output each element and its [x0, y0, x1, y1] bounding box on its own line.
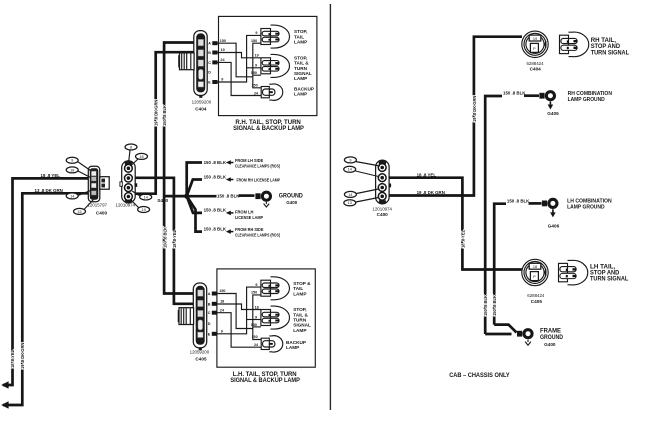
- svg-text:150: 150: [251, 39, 257, 43]
- oval terminal label 9: [66, 157, 78, 163]
- svg-text:14: 14: [144, 195, 148, 199]
- branch wire to ground G400: [187, 195, 217, 198]
- svg-text:9: 9: [255, 31, 257, 35]
- wire 18 .8 YEL left harness: [3, 178, 89, 385]
- svg-text:150 .8 BLK: 150 .8 BLK: [492, 295, 497, 316]
- svg-text:P: P: [533, 47, 536, 51]
- wire 9 tap to stop tail turn bulb: [247, 319, 261, 321]
- svg-text:GROUND: GROUND: [279, 192, 304, 199]
- branch wire to LH side clearance lamps: [187, 163, 202, 196]
- svg-text:SIGNAL & BACKUP LAMP: SIGNAL & BACKUP LAMP: [233, 125, 304, 132]
- arrow RH side clearance: [226, 229, 234, 234]
- pin 3 of 12010974: [124, 184, 132, 192]
- pin 3: [378, 184, 386, 192]
- wire 18 YEL from pin2 down to LH lamp: [389, 178, 522, 270]
- svg-text:D: D: [208, 322, 211, 326]
- wire 150 BLK LH combination lamp ground: [494, 204, 506, 325]
- svg-text:C404: C404: [195, 107, 207, 112]
- svg-text:G400: G400: [286, 200, 298, 205]
- svg-text:6288424: 6288424: [527, 293, 545, 298]
- svg-text:9: 9: [255, 283, 257, 287]
- svg-text:12010974: 12010974: [116, 202, 136, 207]
- connector C400 left half 12015797: [88, 166, 109, 201]
- pin 4 of 12010974: [124, 193, 132, 201]
- svg-text:12010974: 12010974: [372, 206, 392, 211]
- wire 9 pin E to bulbs: [217, 287, 261, 334]
- wire 19 DK GRN from pin4 up to C404: [135, 52, 199, 194]
- pin 1 of 12010974: [124, 164, 132, 172]
- svg-text:13: 13: [348, 201, 352, 205]
- svg-text:C: C: [208, 311, 211, 315]
- ground arrow G405: [548, 102, 554, 110]
- wire 150 BLK RH combination lamp ground: [485, 96, 502, 334]
- svg-text:150: 150: [251, 323, 257, 327]
- svg-text:G405: G405: [547, 111, 559, 116]
- oval terminal label 9: [344, 157, 356, 163]
- oval terminal label 18: [66, 167, 78, 173]
- svg-text:9: 9: [221, 330, 223, 334]
- bulb stop tail lamp (RH): [261, 25, 290, 48]
- svg-text:8: 8: [130, 145, 132, 149]
- wire 150 BLK trunk: C404 pin A down through splice to C405: [164, 43, 203, 294]
- RH lamp assembly box: [219, 16, 317, 115]
- pin 2: [378, 174, 386, 182]
- svg-text:FROM LH SIDE: FROM LH SIDE: [235, 158, 263, 163]
- connector C405 wire boot: [178, 308, 194, 325]
- arrow 18 YEL to front harness: [1, 381, 8, 388]
- oval terminal label 14: [66, 193, 78, 199]
- svg-text:C405: C405: [531, 299, 543, 304]
- branch wire to LH license lamp: [187, 196, 202, 213]
- wire 18 YEL from pin2 to LH lamp drop: [135, 178, 203, 304]
- bulb stop tail turn signal lamp (RH): [261, 54, 290, 77]
- svg-text:FROM RH LICENSE LAMP: FROM RH LICENSE LAMP: [237, 178, 281, 183]
- oval terminal label 14: [344, 191, 356, 197]
- svg-text:12059200: 12059200: [190, 350, 210, 355]
- pin C terminal square: [212, 311, 217, 315]
- pin E terminal square: [212, 80, 217, 84]
- svg-text:B: B: [208, 302, 211, 306]
- arrow LH license: [226, 211, 234, 216]
- bulb backup lamp (LH): [261, 336, 283, 352]
- wire 24 pin C to backup bulb: [218, 62, 262, 95]
- svg-text:19 .8 DK GRN: 19 .8 DK GRN: [154, 100, 159, 126]
- wire 19 .8 DK GRN left harness: [3, 193, 89, 405]
- svg-text:150: 150: [251, 71, 257, 75]
- oval terminal label 8: [125, 144, 137, 150]
- svg-text:9: 9: [349, 158, 351, 162]
- svg-text:19: 19: [141, 208, 145, 212]
- svg-text:150: 150: [251, 291, 257, 295]
- LH lamp assembly box: [217, 269, 315, 367]
- pin 4: [378, 192, 386, 200]
- svg-text:150 .8 BLK: 150 .8 BLK: [507, 198, 530, 203]
- svg-text:FROM RH SIDE: FROM RH SIDE: [235, 227, 264, 232]
- svg-text:LAMP: LAMP: [294, 76, 307, 81]
- pin A terminal square: [212, 292, 217, 296]
- oval terminal label 15: [74, 208, 86, 214]
- svg-text:CLEARANCE LAMPS (ROS): CLEARANCE LAMPS (ROS): [235, 233, 280, 238]
- svg-text:9: 9: [255, 64, 257, 68]
- svg-text:18 .8 YEL: 18 .8 YEL: [417, 172, 437, 177]
- pin 1: [378, 164, 386, 172]
- bulb backup lamp (RH): [261, 84, 283, 100]
- svg-text:LAMP GROUND: LAMP GROUND: [567, 205, 605, 211]
- ring terminal G405: [539, 90, 556, 101]
- wire 19 DK GRN from pin4 up to RH lamp: [389, 37, 523, 196]
- svg-text:9: 9: [255, 315, 257, 319]
- svg-text:LAMP: LAMP: [294, 92, 307, 97]
- arrow LH side clearance: [226, 160, 234, 165]
- splice S400: [184, 194, 189, 199]
- wire 150 pin A into box: [218, 43, 253, 77]
- bulb stop tail lamp (LH): [261, 277, 290, 300]
- svg-text:18 .8 YEL: 18 .8 YEL: [10, 349, 15, 368]
- svg-text:14: 14: [348, 168, 352, 172]
- svg-text:150: 150: [220, 39, 226, 43]
- connector C400 right half 12010974: [120, 160, 137, 203]
- svg-text:P: P: [533, 275, 536, 279]
- svg-text:150 .8 BLK: 150 .8 BLK: [204, 174, 227, 179]
- svg-text:S400: S400: [157, 198, 168, 203]
- svg-text:150: 150: [252, 84, 258, 88]
- wire 150 tap to stop tail turn bulb: [253, 326, 261, 328]
- svg-text:150 .8 BLK: 150 .8 BLK: [204, 208, 227, 213]
- svg-text:LAMP: LAMP: [294, 40, 307, 45]
- svg-text:13 .8 DK GRN: 13 .8 DK GRN: [35, 188, 63, 193]
- wire 18 pin B to bulb: [217, 304, 261, 310]
- svg-text:LICENSE LAMP: LICENSE LAMP: [235, 215, 263, 220]
- wire 19 pin B to bulb: [218, 53, 261, 58]
- svg-text:14: 14: [70, 194, 74, 198]
- svg-text:18: 18: [70, 168, 74, 172]
- connector C400 (chassis harness) 12010974: [376, 160, 392, 205]
- svg-text:C: C: [208, 61, 211, 65]
- svg-text:C400: C400: [377, 212, 389, 217]
- branch wire to RH side clearance lamps: [187, 196, 202, 232]
- svg-text:150 .8 BLK: 150 .8 BLK: [162, 227, 167, 248]
- bulb LH tail stop turn: [559, 260, 588, 285]
- svg-text:18: 18: [533, 265, 537, 269]
- pin A terminal square: [212, 41, 217, 45]
- svg-text:SIGNAL & BACKUP LAMP: SIGNAL & BACKUP LAMP: [230, 377, 300, 384]
- wire 150 distribution vertical: [253, 295, 261, 340]
- pin C terminal square: [212, 60, 217, 64]
- svg-text:14: 14: [348, 193, 352, 197]
- ring terminal G406: [542, 198, 559, 209]
- ground arrow G406: [550, 209, 556, 217]
- arrow RH license: [226, 177, 234, 182]
- connector C405 body (LH lamp assembly): [193, 283, 206, 350]
- svg-text:18: 18: [255, 305, 259, 309]
- svg-text:A: A: [208, 292, 211, 296]
- svg-text:19: 19: [533, 37, 537, 41]
- svg-text:150 .8 BLK: 150 .8 BLK: [483, 295, 488, 316]
- svg-text:150 .8 BLK: 150 .8 BLK: [204, 160, 227, 165]
- wire 150 pin A into box: [217, 294, 253, 329]
- svg-text:19: 19: [221, 48, 225, 52]
- wire 150 tap to stop tail turn bulb: [253, 74, 261, 76]
- bulb stop tail turn signal lamp (LH): [261, 306, 290, 329]
- wire to frame ground from G405 drop: [485, 333, 511, 336]
- ring terminal frame ground G400: [517, 328, 534, 339]
- svg-text:19 .8 DK GRN: 19 .8 DK GRN: [472, 96, 477, 122]
- ground symbol G400: [264, 202, 270, 207]
- svg-text:18 .8 YEL: 18 .8 YEL: [41, 173, 61, 178]
- svg-text:LAMP: LAMP: [293, 291, 306, 296]
- svg-text:19 .8 DK GRN: 19 .8 DK GRN: [417, 190, 445, 195]
- wire 9 tap to stop tail turn bulb: [247, 67, 261, 69]
- svg-text:C400: C400: [96, 210, 108, 215]
- svg-text:B: B: [208, 51, 211, 55]
- svg-text:TURN SIGNAL: TURN SIGNAL: [590, 276, 628, 283]
- svg-text:G406: G406: [548, 223, 560, 228]
- ring terminal G400: [255, 191, 272, 202]
- svg-text:19: 19: [255, 54, 259, 58]
- svg-text:9: 9: [71, 159, 73, 163]
- wire 150 BLK stub to splice S400: [164, 195, 187, 198]
- svg-text:6288424: 6288424: [526, 61, 544, 66]
- svg-text:GROUND: GROUND: [540, 334, 563, 341]
- wire 150 distribution vertical: [253, 43, 261, 88]
- svg-text:18 .8 YEL: 18 .8 YEL: [172, 229, 177, 248]
- svg-text:9: 9: [221, 78, 223, 82]
- svg-text:LAMP GROUND: LAMP GROUND: [568, 97, 605, 103]
- svg-text:C405: C405: [195, 357, 207, 362]
- svg-text:150 .8 BLK: 150 .8 BLK: [204, 226, 227, 231]
- svg-text:CAB – CHASSIS ONLY: CAB – CHASSIS ONLY: [449, 372, 510, 379]
- svg-text:18 .8 YEL: 18 .8 YEL: [460, 229, 465, 248]
- svg-text:LAMP: LAMP: [293, 328, 306, 333]
- svg-text:150 .8 BLK: 150 .8 BLK: [217, 194, 240, 199]
- oval terminal label 13: [344, 200, 356, 206]
- svg-text:18: 18: [139, 155, 143, 159]
- branch wire to RH license lamp: [187, 180, 202, 197]
- svg-text:CLEARANCE LAMPS (ROS): CLEARANCE LAMPS (ROS): [235, 164, 280, 169]
- svg-text:G400: G400: [544, 342, 556, 347]
- svg-text:12015797: 12015797: [87, 203, 107, 208]
- svg-text:D: D: [208, 71, 211, 75]
- svg-text:15: 15: [77, 210, 81, 214]
- svg-text:C404: C404: [530, 67, 542, 72]
- svg-text:LAMP: LAMP: [286, 345, 299, 350]
- wire 24 pin C to backup bulb: [217, 313, 261, 348]
- svg-text:150 .8 BLK: 150 .8 BLK: [503, 91, 526, 96]
- connector C405 round (LH tail lamp): [522, 259, 548, 285]
- svg-text:18: 18: [220, 300, 224, 304]
- wire 9 pin E to bulbs: [218, 35, 261, 82]
- svg-text:150: 150: [252, 335, 258, 339]
- svg-text:A: A: [208, 42, 211, 46]
- bulb RH tail stop turn: [560, 32, 589, 57]
- oval terminal label 14: [344, 166, 356, 172]
- svg-text:150 .8 BLK: 150 .8 BLK: [162, 105, 167, 126]
- svg-text:TURN SIGNAL: TURN SIGNAL: [591, 49, 629, 56]
- wire to frame ground from G406 drop: [494, 325, 516, 333]
- oval terminal label 19: [138, 207, 150, 213]
- connector C404 wire boot: [178, 53, 194, 70]
- ground symbol frame G400: [525, 340, 531, 346]
- oval terminal label 14: [140, 194, 152, 200]
- connector C404 body (RH lamp assembly): [194, 31, 207, 98]
- pin E terminal square: [212, 332, 217, 336]
- pin 2 of 12010974: [124, 174, 132, 182]
- pin B terminal square: [212, 51, 217, 55]
- connector C404 round (RH tail lamp): [522, 31, 548, 57]
- svg-text:150: 150: [219, 289, 225, 293]
- oval terminal label 18: [136, 153, 148, 159]
- pin B terminal square: [212, 302, 217, 306]
- svg-text:12059200: 12059200: [192, 100, 212, 105]
- svg-text:FROM LH: FROM LH: [235, 209, 254, 214]
- divider line: [329, 4, 331, 410]
- svg-text:19 .8 DK GRN: 19 .8 DK GRN: [20, 343, 25, 369]
- arrow 19 DK GRN to front harness: [1, 401, 8, 408]
